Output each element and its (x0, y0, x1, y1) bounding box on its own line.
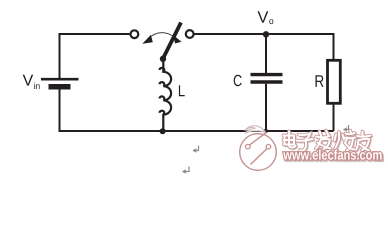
label Vo (258, 11, 274, 24)
switch S1 right terminal (186, 30, 194, 38)
logo e-link lower diagonal (251, 149, 267, 165)
watermark chinese glyphs 电子发烧友 (284, 131, 372, 152)
switch S1 lever (163, 23, 181, 59)
label R (316, 75, 324, 87)
wire top-left segment (61, 33, 130, 35)
capacitor C bottom lead (265, 84, 267, 131)
battery V1 short thick plate (49, 84, 71, 90)
label Vin (23, 75, 40, 89)
battery V1 long plate (41, 78, 79, 81)
ghost of wire through flag (246, 130, 264, 132)
logo flag banner (245, 126, 267, 134)
return mark 2 (182, 167, 189, 174)
switch toggle arc (148, 33, 177, 39)
capacitor C top lead (265, 35, 267, 73)
switch arrowhead right (173, 35, 181, 43)
label L (179, 85, 185, 96)
wire battery to bottom (59, 90, 61, 133)
logo e-link upper diagonal (250, 133, 266, 145)
wire bottom (59, 130, 334, 132)
wire resistor bottom (333, 103, 335, 131)
switch S1 left terminal (131, 30, 139, 38)
switch S1 pivot dot (160, 56, 166, 62)
node Vo dot (263, 31, 269, 37)
return mark 1 (193, 146, 199, 153)
switch arrowhead left (142, 35, 153, 44)
logo node dot right (266, 144, 271, 149)
node junction dot bottom of L (160, 128, 166, 134)
resistor R body (328, 60, 341, 103)
label C (234, 75, 242, 86)
watermark logo circle (240, 126, 277, 171)
logo node dot left (246, 144, 251, 149)
wire top-right segment (194, 34, 333, 61)
capacitor bottom junction dot (264, 129, 268, 133)
inductor L coil (163, 61, 171, 130)
wire left side (59, 33, 61, 78)
capacitor C plates (251, 75, 283, 82)
return mark 3 (343, 125, 349, 132)
